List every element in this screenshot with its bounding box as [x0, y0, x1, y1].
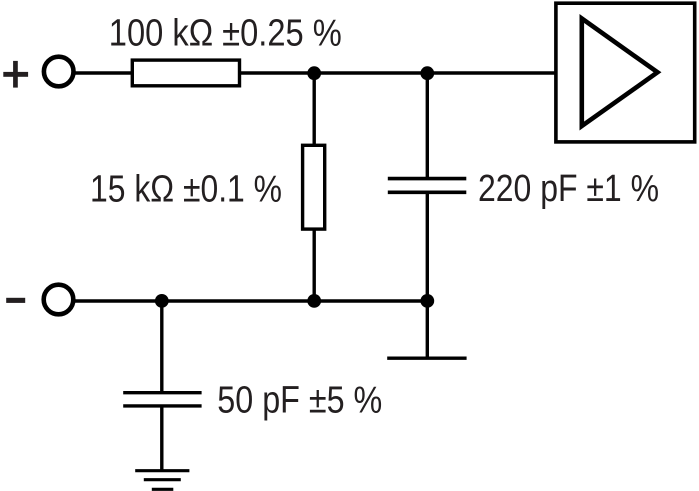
wire top: + terminal to op-amp input — [73, 71, 556, 74]
plus input symbol — [3, 61, 28, 88]
terminal line below C1 — [387, 357, 466, 360]
wire middle vertical through R2 node A to node C — [313, 73, 316, 301]
op-amp U1 triangle — [582, 19, 658, 127]
node junction dot (bottom, R2 bottom) — [307, 294, 321, 308]
node C junction dot (bottom, C2 tap) — [155, 294, 169, 308]
plus input terminal circle — [44, 57, 74, 87]
svg-text:220 pF ±1 %: 220 pF ±1 % — [478, 168, 659, 210]
wire right vertical: node B to C1 top plate — [426, 73, 429, 179]
wire: C1 bottom plate to terminal line — [426, 192, 429, 358]
capacitor C2 50pF bottom plate — [123, 404, 201, 407]
wire: node C to C2 top plate — [160, 301, 163, 393]
capacitor C1 220pF top plate — [388, 177, 467, 181]
minus input symbol — [6, 298, 25, 303]
node A junction dot (top, R2 tap) — [307, 66, 321, 80]
svg-text:100 kΩ ±0.25 %: 100 kΩ ±0.25 % — [109, 12, 342, 54]
svg-text:15 kΩ ±0.1 %: 15 kΩ ±0.1 % — [90, 168, 282, 210]
svg-text:50 pF ±5 %: 50 pF ±5 % — [217, 380, 382, 422]
op-amp U1 box — [556, 3, 695, 142]
wire: C2 bottom plate to ground — [160, 406, 163, 471]
capacitor C2 50pF top plate — [123, 391, 201, 394]
wire bottom: - terminal to node D — [73, 299, 427, 302]
ground symbol — [135, 471, 189, 490]
node D junction dot (bottom, C1 branch) — [420, 294, 434, 308]
resistor R2 15k body — [303, 145, 325, 229]
resistor R1 100k body — [132, 60, 239, 86]
node B junction dot (top, C1 tap) — [420, 66, 434, 80]
capacitor C1 220pF bottom plate — [388, 191, 467, 195]
minus input terminal circle — [44, 285, 74, 315]
